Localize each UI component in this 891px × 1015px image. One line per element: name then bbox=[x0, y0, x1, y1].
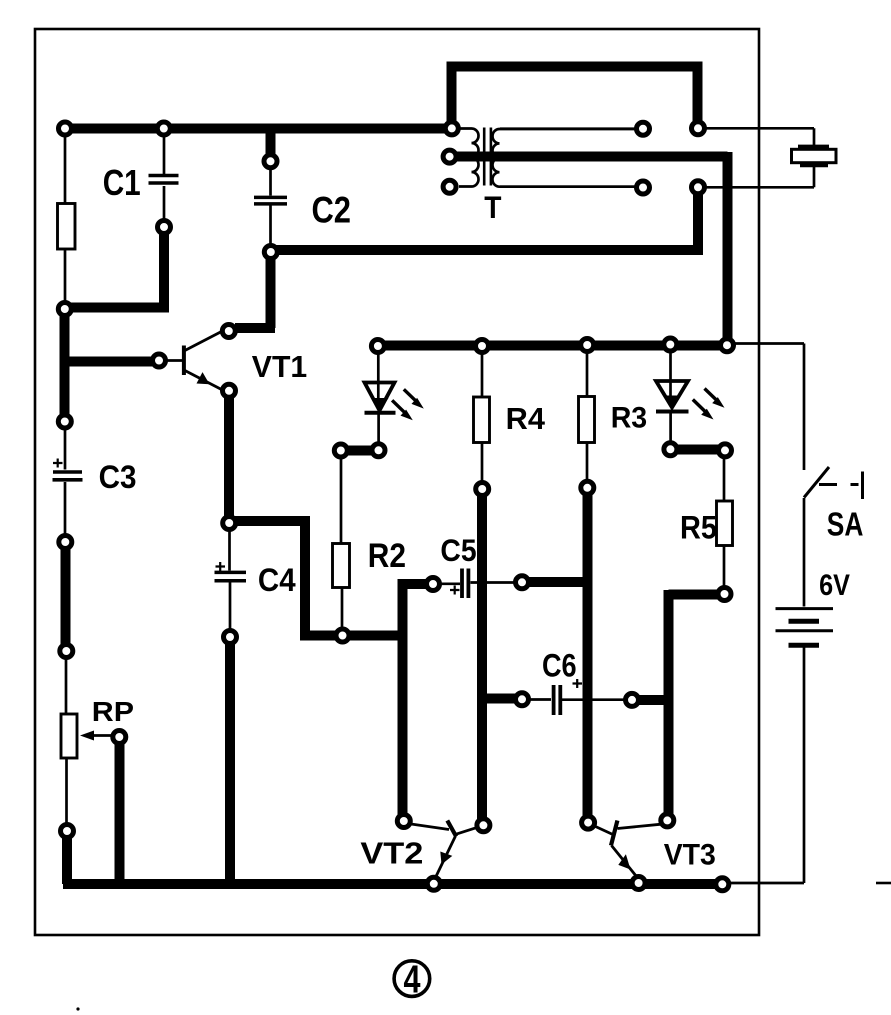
wire: R2 top lead bbox=[340, 457, 343, 544]
wire: LED2 bottom short link bbox=[676, 445, 718, 455]
svg-text:C4: C4 bbox=[258, 562, 296, 598]
wire: left column thick between C3 bottom node and node(66,651) bbox=[61, 548, 71, 645]
svg-text:T: T bbox=[484, 189, 501, 225]
wire: left column RP bottom node down to ground bus corner bbox=[62, 837, 72, 884]
node VT1 emitter bbox=[223, 384, 236, 397]
node R2 top bbox=[334, 444, 347, 457]
node piezo bottom bbox=[692, 181, 705, 194]
node VT3 emitter bbox=[632, 877, 645, 890]
node LED1 top bbox=[371, 340, 384, 353]
wire: LED1 top lead bbox=[377, 353, 380, 410]
wire: LED1 bottom short link bbox=[346, 446, 372, 456]
node C2 top bbox=[264, 155, 277, 168]
wire: R4 top lead bbox=[481, 353, 484, 398]
node VT2 collector bbox=[477, 819, 490, 832]
wire: piezo bottom to node(698,187) bbox=[705, 167, 814, 187]
wire: transformer secondary top lead bbox=[500, 127, 636, 130]
node C2 bottom bbox=[264, 246, 277, 259]
wire: R4 bottom lead bbox=[481, 443, 484, 484]
svg-text:C2: C2 bbox=[312, 190, 352, 231]
node VT2 base bbox=[397, 815, 410, 828]
node transformer primary top bbox=[445, 122, 458, 135]
wire: R5 top lead bbox=[723, 457, 726, 502]
wire: node(727,345) to switch SA bbox=[734, 344, 804, 471]
node C1 bottom bbox=[158, 221, 171, 234]
wire: C6 right node to x=668 column bbox=[637, 695, 672, 705]
node LED2 top bbox=[664, 338, 677, 351]
transistor VT1 bbox=[166, 331, 223, 390]
wire: C5 right lead bbox=[471, 581, 516, 584]
resistor R5 bbox=[717, 501, 733, 546]
node C6 right bbox=[626, 693, 639, 706]
svg-text:R5: R5 bbox=[680, 510, 717, 546]
node left-542 bbox=[59, 536, 72, 549]
LED VD2 triangle bbox=[656, 381, 688, 408]
node R5 top bbox=[719, 444, 732, 457]
wire: battery bottom to ground bus bbox=[729, 648, 804, 884]
wire: RP bottom lead bbox=[65, 758, 68, 825]
wire: top supply rail y=128 bbox=[62, 124, 452, 134]
svg-text:VT3: VT3 bbox=[664, 839, 716, 872]
node circles bbox=[58, 122, 733, 891]
wire: R5 bottom node left then down to VT3 collector bbox=[669, 590, 720, 816]
wire: C3 bottom lead bbox=[64, 482, 67, 536]
transistor VT3 bbox=[596, 821, 661, 877]
switch SA blade bbox=[804, 467, 829, 498]
wire: R4 column down to VT2 collector bbox=[477, 494, 487, 821]
wire: C6 right lead bbox=[562, 698, 625, 701]
wire: C2 bottom node down then left to VT1 collector bbox=[235, 254, 275, 328]
node C6 left bbox=[516, 693, 529, 706]
transformer T primary winding bbox=[459, 129, 479, 187]
transformer T core bbox=[484, 128, 491, 186]
wire: VT1 emitter node down to node(229,523) bbox=[224, 396, 234, 523]
wire: LED2 top lead bbox=[669, 351, 672, 406]
wire: C6 left lead bbox=[529, 698, 551, 701]
wire: tee to VT1 base node bbox=[64, 357, 152, 367]
node LED2 bottom bbox=[664, 443, 677, 456]
capacitor C1 bbox=[149, 176, 179, 184]
wire: node(698,187) down and left to C2 bottom node bbox=[271, 191, 703, 250]
node bus right end bbox=[716, 878, 729, 891]
svg-text:SA: SA bbox=[827, 506, 864, 543]
node left-309 bbox=[58, 303, 71, 316]
battery GB 6V plates bbox=[776, 607, 834, 610]
wire: RP wiper node down to ground bus bbox=[115, 743, 125, 879]
node left-831 bbox=[61, 825, 74, 838]
node RP wiper bbox=[113, 731, 126, 744]
svg-text:C5: C5 bbox=[440, 532, 476, 568]
node R5 bottom bbox=[718, 588, 731, 601]
node VT1 base bbox=[153, 354, 166, 367]
wire: R1 bottom lead bbox=[64, 249, 67, 303]
wire: C2 bottom lead bbox=[269, 206, 272, 247]
svg-text:C3: C3 bbox=[99, 459, 137, 495]
node transformer primary bottom bbox=[443, 180, 456, 193]
wire: transformer secondary bottom lead bbox=[500, 185, 636, 188]
stray scan dot bottom left bbox=[76, 1007, 79, 1010]
svg-text:C1: C1 bbox=[103, 162, 141, 203]
LED VD1 cathode bar bbox=[365, 411, 396, 415]
wire: LED2 bottom lead bbox=[669, 412, 672, 444]
svg-text:R4: R4 bbox=[506, 402, 545, 436]
wire: R3 column down to VT3 base node bbox=[583, 493, 593, 818]
node VT3 collector bbox=[661, 814, 674, 827]
wire: top loop over transformer bbox=[452, 67, 698, 129]
wire: R3 top lead bbox=[586, 352, 589, 397]
node emitter-bus bbox=[223, 517, 236, 530]
piezo sounder B plates bbox=[798, 146, 829, 165]
wire: R3 bottom lead bbox=[586, 443, 589, 482]
LED VD2 cathode bar bbox=[656, 410, 689, 414]
svg-text:R2: R2 bbox=[368, 537, 406, 575]
node VT1 collector bbox=[222, 325, 235, 338]
node secondary terminal top bbox=[637, 122, 650, 135]
wire: C1 bottom node down then left to node(65,309) bbox=[64, 231, 169, 308]
svg-text:C6: C6 bbox=[542, 648, 577, 684]
svg-text:6V: 6V bbox=[819, 569, 850, 602]
node R3 top bbox=[581, 339, 594, 352]
resistor R4 bbox=[474, 397, 490, 443]
node secondary terminal bottom bbox=[637, 181, 650, 194]
node LED1 bottom bbox=[372, 444, 385, 457]
wire: C2 top lead bbox=[269, 167, 272, 196]
wire: C5 right node to R3 column bbox=[517, 577, 592, 587]
resistor R3 bbox=[579, 397, 595, 443]
wire: tee from R4 column to C6 left node bbox=[482, 694, 517, 704]
LED VD1 arrows bbox=[404, 389, 418, 403]
capacitor C4 bbox=[215, 572, 247, 580]
wire: switch SA to battery top bbox=[803, 498, 806, 607]
svg-text:R3: R3 bbox=[611, 402, 648, 435]
resistor R1 (unlabeled, top left) bbox=[58, 204, 76, 250]
transistor VT2 bbox=[411, 821, 478, 879]
wire: RP top lead bbox=[65, 657, 68, 714]
svg-text:VT2: VT2 bbox=[360, 836, 423, 870]
wire: stub from rail down to C2 top node bbox=[266, 130, 276, 155]
figure number 4 circle bbox=[394, 961, 430, 997]
svg-text:VT1: VT1 bbox=[252, 349, 307, 384]
node C5 left bbox=[427, 578, 440, 591]
wire: C4 bottom lead bbox=[229, 583, 232, 632]
svg-text:4: 4 bbox=[404, 959, 421, 1002]
switch SA actuator dashed link bbox=[819, 483, 859, 486]
wire: node(698,128) to piezo top bbox=[705, 128, 814, 145]
wire: C1 bottom lead bbox=[163, 186, 166, 221]
wire: R5 bottom lead bbox=[723, 546, 726, 588]
transformer T secondary winding bbox=[492, 129, 636, 187]
node R4 top bbox=[476, 340, 489, 353]
wire: R2 bottom lead bbox=[341, 588, 344, 630]
node R3 bottom bbox=[581, 481, 594, 494]
node rail-C1 bbox=[157, 122, 170, 135]
node VT3 base bbox=[582, 816, 595, 829]
node loop-piezo top bbox=[692, 122, 705, 135]
capacitor C5 bbox=[462, 569, 468, 599]
wire: LED1 bottom lead bbox=[377, 413, 380, 444]
svg-text:RP: RP bbox=[92, 696, 134, 727]
stray scan dash bottom right bbox=[876, 882, 891, 885]
wire: C1 top lead bbox=[163, 133, 166, 174]
wire: x=402 column from C5 corner down to VT2 base node bbox=[403, 584, 427, 818]
resistor R2 bbox=[333, 544, 350, 588]
node VT2 emitter bbox=[427, 877, 440, 890]
potentiometer RP body bbox=[61, 714, 77, 758]
capacitor C2 bbox=[254, 197, 287, 204]
switch SA actuator bar bbox=[861, 472, 864, 500]
node R2 bottom bbox=[336, 629, 349, 642]
LED VD2 arrows bbox=[705, 389, 719, 403]
capacitor C3 bbox=[53, 472, 83, 480]
LED VD1 triangle bbox=[365, 383, 395, 411]
potentiometer RP wiper arrow bbox=[93, 734, 116, 737]
piezo sounder B body bbox=[792, 149, 837, 162]
wire: ground bus y=884 bbox=[63, 879, 722, 889]
wire: emitter bus right-down-right to x=402 column bbox=[233, 521, 403, 636]
node left-421 bbox=[58, 415, 71, 428]
node left-651 bbox=[60, 645, 73, 658]
node rail-left bbox=[59, 122, 72, 135]
capacitor C6 bbox=[554, 685, 561, 715]
wire: left column node(65,309) down to node(65,421) bbox=[60, 311, 70, 418]
wire: C3 top lead bbox=[64, 428, 67, 470]
wire: C5 left lead bbox=[440, 582, 460, 585]
node C5 right bbox=[516, 576, 529, 589]
node C4 bottom bbox=[224, 631, 237, 644]
node R4 bottom bbox=[476, 483, 489, 496]
wire: middle bus y=345 from LED1 to corner x=727 bbox=[378, 341, 727, 351]
wire: C4 top lead bbox=[228, 529, 231, 571]
wire: C4 bottom node down to ground bus bbox=[225, 643, 235, 879]
border frame bbox=[35, 29, 759, 935]
node bus-727 bbox=[721, 339, 734, 352]
node transformer center tap bbox=[443, 150, 456, 163]
wire: R1 top lead bbox=[64, 133, 67, 204]
wire: transformer center tap to right bus corner x=727 bbox=[453, 152, 728, 345]
